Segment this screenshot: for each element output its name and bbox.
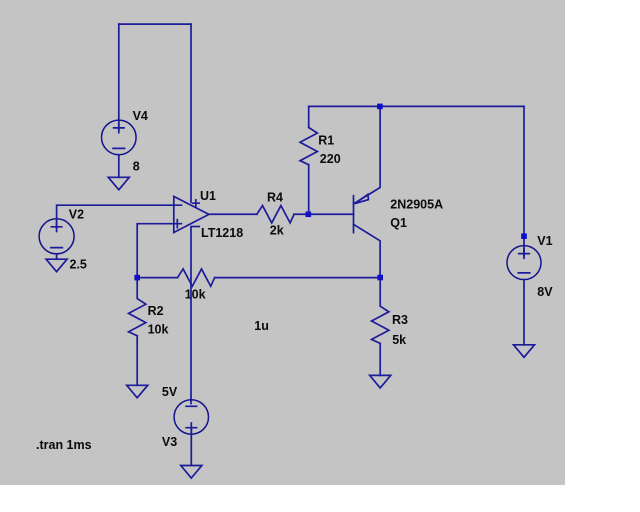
resistor R4 <box>257 206 294 223</box>
svg-text:2k: 2k <box>270 224 284 238</box>
transistor Q1 <box>354 106 381 277</box>
ground below R2 <box>127 385 148 398</box>
svg-text:10k: 10k <box>185 287 206 301</box>
wire V1 to ground <box>523 280 525 345</box>
ground below V3 <box>181 466 202 479</box>
resistor R2 <box>129 278 146 336</box>
wire V2 to U1 inverting input <box>57 205 182 228</box>
svg-text:U1: U1 <box>200 189 216 203</box>
ground below V2 <box>46 259 67 272</box>
node at emitter top rail <box>377 104 383 110</box>
ground below R3 <box>370 375 391 388</box>
wire U1 V+ drop <box>190 24 192 202</box>
svg-text:.tran 1ms: .tran 1ms <box>36 438 92 452</box>
wire V4 drop <box>118 24 120 129</box>
node at R4/R1/base junction <box>306 211 312 217</box>
wire V2 to ground <box>56 254 58 259</box>
voltage source V2 <box>39 219 74 254</box>
svg-text:8V: 8V <box>537 285 553 299</box>
feedback resistor 10k <box>178 269 215 286</box>
node at V1 top <box>521 233 527 239</box>
wire top rail right (R1 to V1) <box>309 105 524 107</box>
wire R1 bottom to node <box>308 165 310 215</box>
node at feedback/R2 <box>134 275 140 281</box>
wire U1 output to R4 <box>209 213 257 215</box>
svg-text:V3: V3 <box>162 435 177 449</box>
svg-text:R2: R2 <box>148 304 164 318</box>
resistor R3 <box>372 278 389 344</box>
op-amp U1 <box>174 196 209 232</box>
wire top rail left (V4 to U1 V+) <box>119 23 191 25</box>
svg-text:V1: V1 <box>537 234 552 248</box>
ground below V4 <box>108 177 129 190</box>
svg-text:2N2905A: 2N2905A <box>390 198 443 212</box>
wire feedback right <box>215 277 381 279</box>
wire R1 top <box>308 106 310 127</box>
svg-text:10k: 10k <box>148 323 169 337</box>
voltage source V3 <box>174 400 208 434</box>
svg-text:R3: R3 <box>392 313 408 327</box>
svg-text:LT1218: LT1218 <box>201 226 243 240</box>
voltage source V4 <box>102 120 137 155</box>
svg-text:5k: 5k <box>392 333 406 347</box>
wire U1 V- to V3 <box>190 227 192 404</box>
wire R4 to Q1 base <box>294 213 353 215</box>
svg-text:2.5: 2.5 <box>70 258 87 272</box>
ground below V1 <box>514 345 535 358</box>
svg-text:1u: 1u <box>254 319 269 333</box>
wire R2 to ground <box>136 336 138 386</box>
node at Q1 collector/R3 <box>377 275 383 281</box>
svg-text:Q1: Q1 <box>390 216 407 230</box>
svg-text:V2: V2 <box>69 208 84 222</box>
wire V1 drop <box>523 106 525 255</box>
svg-text:R4: R4 <box>267 191 283 205</box>
wire V3 to ground <box>190 429 192 466</box>
voltage source V1 <box>507 246 541 280</box>
wire U1 noninverting input <box>137 224 181 278</box>
resistor R1 <box>300 128 317 165</box>
wire feedback left <box>137 277 177 279</box>
wire R3 to ground <box>379 343 381 375</box>
svg-text:V4: V4 <box>133 109 148 123</box>
svg-text:5V: 5V <box>162 385 178 399</box>
svg-text:220: 220 <box>320 152 341 166</box>
wire V4 to ground <box>118 155 120 178</box>
svg-text:R1: R1 <box>318 134 334 148</box>
svg-text:8: 8 <box>133 160 140 174</box>
